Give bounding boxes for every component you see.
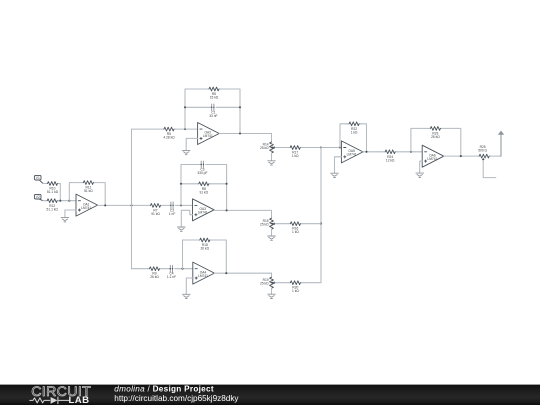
resistor R10 (46, 182, 59, 186)
label R16 (292, 227, 299, 235)
wire R14 wiper (275, 147, 289, 149)
wire OA4 + to ground (186, 278, 193, 294)
junction (180, 204, 182, 206)
svg-text:LM741: LM741 (198, 211, 208, 215)
wire R15 wiper (275, 223, 289, 225)
junction (226, 183, 228, 185)
wire (397, 151, 423, 153)
junction (184, 106, 186, 108)
wire bus1 vertical (131, 129, 133, 269)
svg-text:25 kΩ: 25 kΩ (431, 135, 440, 139)
label R20 (292, 286, 299, 294)
resistor R18 (198, 238, 211, 242)
wire R8 left (181, 183, 197, 185)
wire R8 right (210, 183, 226, 185)
junction (239, 132, 241, 134)
wire (175, 268, 193, 270)
output terminal arrow (500, 135, 502, 156)
capacitor C1 (212, 104, 214, 111)
wire OA6 feedback right (442, 128, 461, 156)
ground OA6 (416, 173, 424, 177)
svg-text:91 kΩ: 91 kΩ (151, 212, 160, 216)
wire R25 wiper (483, 161, 496, 178)
svg-text:1 kΩ: 1 kΩ (292, 289, 299, 293)
wire R14 to ground (271, 153, 273, 161)
wire (43, 200, 46, 202)
wire OA1 output (98, 204, 149, 206)
svg-text:33 nF: 33 nF (209, 114, 217, 118)
wire OA4 output (214, 272, 271, 274)
svg-text:1 kΩ: 1 kΩ (351, 130, 358, 134)
op-amp OA5 (341, 141, 363, 163)
junction (460, 155, 462, 157)
footer bar (0, 385, 540, 405)
resistor R12 (46, 199, 59, 203)
junction (239, 106, 241, 108)
ground OA5 (331, 173, 339, 177)
ground R15 (268, 236, 276, 240)
junction (184, 128, 186, 130)
label R24 (386, 155, 395, 163)
svg-text:25 kΩ: 25 kΩ (260, 282, 269, 286)
svg-text:V2: V2 (36, 195, 40, 199)
wire (175, 204, 192, 206)
potentiometer R15 (270, 218, 276, 229)
svg-text:4.28 kΩ: 4.28 kΩ (163, 136, 175, 140)
svg-text:330 pF: 330 pF (197, 171, 207, 175)
wire to R15 (271, 210, 273, 218)
label R25 (478, 145, 487, 153)
wire bus2 vertical (320, 148, 322, 283)
junction bus2 top (320, 146, 322, 148)
junction (68, 200, 70, 202)
capacitor C2 (171, 202, 173, 209)
wire OA3 output (214, 209, 271, 211)
label R11 (84, 186, 93, 194)
label R22 (351, 127, 358, 135)
ground OA2 (182, 150, 190, 154)
wire R15 to ground (271, 229, 273, 236)
ground R19 (268, 294, 276, 298)
svg-text:LM741: LM741 (347, 153, 357, 157)
svg-text:1 nF: 1 nF (169, 212, 176, 216)
resistor R6 (208, 87, 221, 91)
svg-text:25 kΩ: 25 kΩ (260, 223, 269, 227)
junction (180, 183, 182, 185)
junction (226, 209, 228, 211)
svg-text:1 kΩ: 1 kΩ (292, 154, 299, 158)
label R15 (260, 219, 269, 227)
wire OA4 feedback left (183, 240, 199, 269)
wire OA5 feedback right (361, 124, 367, 152)
wire OA5 feedback left (340, 124, 348, 148)
label R23 (431, 131, 440, 139)
wire (176, 128, 198, 130)
resistor R8 (197, 182, 210, 186)
label R17 (292, 151, 299, 159)
terminal V2 (34, 194, 43, 200)
resistor R17 (289, 146, 302, 150)
svg-text:51.1 kΩ: 51.1 kΩ (47, 207, 59, 211)
wire OA4 feedback right (211, 240, 226, 273)
wire C1 right (216, 106, 240, 108)
wire R25 to output (491, 155, 501, 157)
wire R19 wiper (275, 282, 289, 284)
wire (162, 204, 171, 206)
resistor R22 (348, 122, 361, 126)
svg-text:http://circuitlab.com/cjp65kj9: http://circuitlab.com/cjp65kj9z8dky (114, 394, 239, 403)
op-amp OA4 (193, 262, 215, 284)
svg-text:LM741: LM741 (81, 206, 91, 210)
wire C1 left (185, 106, 212, 108)
op-amp OA3 (193, 199, 215, 221)
capacitor C3 (201, 161, 203, 168)
wire OA2 feedback right (221, 89, 241, 134)
resistor R16 (289, 222, 302, 226)
wire bottom stage input (132, 268, 149, 270)
op-amp OA2 (198, 123, 220, 145)
potentiometer R25 wiper arrow (482, 159, 484, 160)
svg-text:LAB: LAB (69, 395, 90, 405)
resistor R11 (82, 181, 95, 185)
junction (104, 204, 106, 206)
label R9 (150, 272, 159, 280)
label R14 (260, 143, 269, 151)
resistor R24 (384, 150, 397, 154)
svg-text:26 kΩ: 26 kΩ (201, 247, 210, 251)
svg-text:25 kΩ: 25 kΩ (260, 146, 269, 150)
svg-text:dmolina / Design Project: dmolina / Design Project (114, 385, 214, 394)
label R18 (201, 243, 210, 251)
potentiometer R25 body (478, 154, 491, 158)
label C4 (167, 272, 176, 280)
svg-text:51 kΩ: 51 kΩ (84, 189, 93, 193)
svg-text:51.1 kΩ: 51.1 kΩ (47, 190, 59, 194)
wire R19 to ground (271, 288, 273, 294)
wire OA3 + to ground (181, 210, 192, 227)
svg-text:LM741: LM741 (198, 274, 208, 278)
svg-text:500 Ω: 500 Ω (478, 148, 487, 152)
potentiometer R14 (270, 142, 276, 153)
junction bus1 (130, 204, 132, 206)
svg-text:LM741: LM741 (203, 134, 213, 138)
potentiometer R19 (270, 277, 276, 288)
wire (302, 147, 321, 149)
wire OA2 feedback left (185, 89, 208, 129)
wire OA1 + to ground (65, 210, 76, 218)
wire to R14 (271, 134, 273, 143)
label R12 (47, 204, 59, 212)
ground OA1 (61, 218, 69, 222)
wire OA1 feedback (69, 183, 82, 201)
junction (410, 151, 412, 153)
wire OA2 output (219, 133, 271, 135)
junction (181, 268, 183, 270)
label R10 (47, 187, 59, 195)
junction (365, 151, 367, 153)
ground R14 (268, 161, 276, 165)
junction (59, 200, 61, 202)
wire top stage input (132, 128, 163, 130)
label R6 (210, 92, 219, 100)
resistor R7 (149, 204, 162, 208)
wire (161, 268, 170, 270)
op-amp OA6 (422, 145, 444, 167)
resistor R5 (163, 127, 176, 131)
label R5 (163, 132, 175, 140)
wire OA3 feedback left (181, 165, 201, 206)
wire OA5 + to ground (335, 157, 342, 173)
svg-text:91 kΩ: 91 kΩ (200, 190, 209, 194)
wire to R19 (271, 273, 273, 277)
label R8 (200, 187, 209, 195)
wire to OA5 (321, 147, 341, 149)
op-amp OA1 (76, 194, 98, 216)
junction (339, 146, 341, 148)
svg-text:12 kΩ: 12 kΩ (386, 158, 395, 162)
svg-text:LM741: LM741 (427, 157, 437, 161)
wire (59, 184, 60, 201)
wire (302, 282, 321, 284)
wire OA6 + to ground (420, 161, 423, 173)
svg-text:1 kΩ: 1 kΩ (292, 230, 299, 234)
wire (43, 183, 46, 185)
svg-text:V1: V1 (36, 176, 40, 180)
wire OA5 output (363, 151, 384, 153)
capacitor C4 (170, 265, 172, 272)
wire (95, 183, 105, 206)
resistor R20 (289, 281, 302, 285)
wire OA6 feedback left (411, 128, 429, 151)
wire OA2 + to ground (186, 138, 197, 150)
junction (225, 272, 227, 274)
terminal V1 (34, 175, 43, 183)
label C1 (209, 110, 217, 118)
label R7 (151, 208, 160, 216)
svg-text:26 kΩ: 26 kΩ (150, 275, 159, 279)
label C3 (197, 168, 207, 176)
logo resistor-diode glyph (30, 397, 69, 404)
wire (59, 200, 76, 202)
ground OA4 (183, 294, 191, 298)
resistor R23 (429, 126, 442, 130)
wire OA3 feedback right (206, 165, 227, 211)
svg-text:15 kΩ: 15 kΩ (210, 96, 219, 100)
wire (302, 223, 321, 225)
resistor R9 (148, 267, 161, 271)
label R19 (260, 278, 269, 286)
svg-text:1.2 nF: 1.2 nF (167, 275, 176, 279)
junction bus2 mid (320, 223, 322, 225)
wire OA6 output (444, 155, 478, 157)
ground OA3 (178, 227, 186, 231)
label C2 (169, 208, 176, 216)
